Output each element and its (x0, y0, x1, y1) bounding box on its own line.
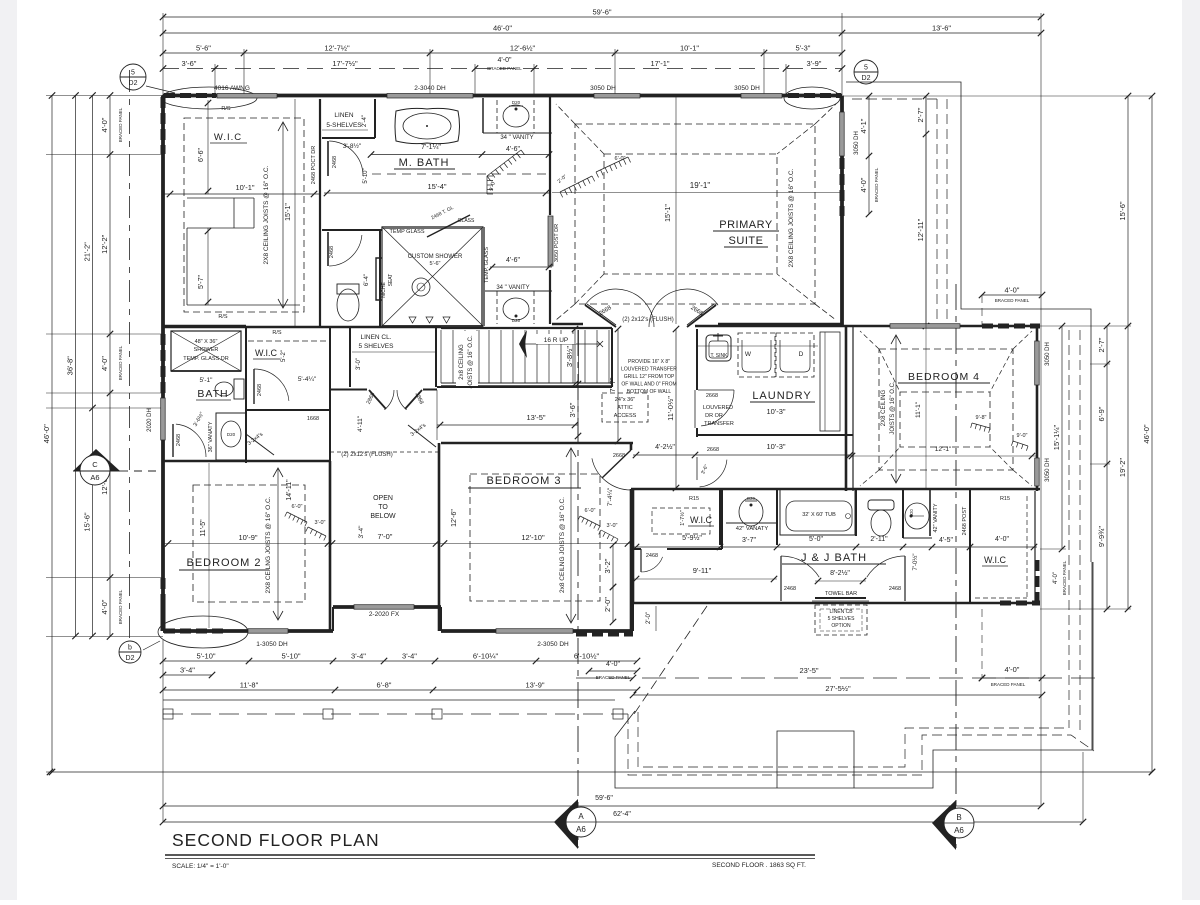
svg-text:2X8 CEILNG JOISTS @ 16" O.C.: 2X8 CEILNG JOISTS @ 16" O.C. (265, 496, 272, 593)
svg-text:19'-1": 19'-1" (690, 181, 711, 190)
svg-text:11'-8": 11'-8" (240, 681, 259, 690)
right dim 46'-0" (1151, 96, 1153, 772)
svg-text:R/S: R/S (221, 106, 231, 112)
svg-text:3'-4": 3'-4" (180, 666, 195, 675)
mbath door upper (327, 141, 329, 176)
top dim 46'-0" / 13'-6" (163, 32, 1041, 34)
left extension horizontals (46, 95, 163, 97)
bath2 toilet (234, 379, 244, 399)
wall bedroom2 right / open below left (329, 461, 332, 631)
svg-text:62'-4": 62'-4" (613, 811, 631, 818)
svg-text:2468: 2468 (176, 434, 182, 446)
braced panel right wall (840, 158, 845, 216)
right dim 2'-7" / 12'-11" (925, 96, 927, 326)
wall linen1 (374, 99, 376, 138)
hall double doors (369, 390, 386, 409)
wall suite left (549, 96, 551, 215)
svg-text:R15: R15 (1000, 496, 1010, 502)
svg-text:11'-0½": 11'-0½" (666, 396, 675, 421)
bedroom3 joist box (470, 474, 600, 601)
svg-text:10'-3": 10'-3" (766, 442, 785, 451)
deck edge line (163, 699, 615, 701)
svg-text:2'-7": 2'-7" (916, 107, 925, 122)
svg-text:36" VANATY: 36" VANATY (208, 421, 214, 452)
corridor dims (617, 329, 619, 441)
svg-text:2X8 CEILING JOISTS @ 16" O.C.: 2X8 CEILING JOISTS @ 16" O.C. (263, 165, 270, 264)
svg-text:D2: D2 (126, 655, 135, 662)
svg-text:3'-6": 3'-6" (568, 402, 577, 417)
braced panel bedroom4 top (982, 324, 1040, 329)
laundry wall opening (694, 390, 696, 428)
bath2 vanity (216, 413, 246, 460)
mbath toilet (337, 289, 359, 321)
svg-text:D20: D20 (909, 508, 914, 516)
custom shower (382, 227, 483, 326)
wic2 door (253, 369, 255, 404)
svg-text:5'-2": 5'-2" (281, 350, 287, 362)
svg-text:LINEN: LINEN (334, 112, 353, 119)
callout ellipse top-left corner (161, 87, 257, 109)
svg-text:SECOND FLOOR PLAN: SECOND FLOOR PLAN (172, 830, 380, 850)
patio hip diagonal (632, 606, 707, 717)
patio right dashed verticals (1068, 330, 1070, 728)
right dim 15'-6" / 19'-2" (1127, 96, 1129, 609)
bath2 niche wall (163, 325, 246, 328)
svg-text:SECOND FLOOR . 1863 SQ FT.: SECOND FLOOR . 1863 SQ FT. (712, 862, 806, 869)
mbath dim line 7'-1 / 4'-6 (371, 154, 549, 156)
left dim tier4 (109, 96, 111, 637)
room centerline (163, 543, 633, 545)
stair direction arrow 16 R UP (524, 343, 600, 345)
svg-text:46'-0": 46'-0" (493, 24, 512, 33)
section line B (955, 284, 957, 848)
windows bedroom4 right wall (1035, 341, 1040, 385)
window 2-2020 FX (354, 605, 414, 610)
bedroom3 hatches (580, 516, 600, 526)
svg-text:GRILL 12" FROM TOP: GRILL 12" FROM TOP (624, 374, 675, 380)
wall vanity1/tub (776, 489, 778, 545)
wall laundry left (696, 329, 698, 390)
right dim tier 1107 (1106, 326, 1108, 609)
svg-text:PRIMARY: PRIMARY (719, 219, 773, 231)
svg-text:10'-1": 10'-1" (235, 183, 254, 192)
svg-text:BRACED PANEL: BRACED PANEL (1062, 560, 1067, 595)
mbath door lower (327, 232, 329, 266)
svg-text:OPTION: OPTION (831, 623, 851, 629)
svg-text:4'-0": 4'-0" (100, 356, 109, 371)
right dim 15'-1 1/4" (1061, 326, 1063, 549)
svg-text:TEMP GLASS: TEMP GLASS (389, 229, 424, 235)
bath2 shower (171, 331, 241, 371)
washer (738, 333, 775, 377)
svg-text:5'-6": 5'-6" (430, 261, 441, 267)
suite double doors (585, 305, 616, 327)
braced panel bottom bedroom3 (576, 632, 633, 637)
svg-text:BRACED PANEL: BRACED PANEL (118, 345, 123, 380)
svg-text:2468 POST: 2468 POST (962, 506, 968, 535)
svg-text:12'-2": 12'-2" (100, 234, 109, 253)
porch roof dashed verticals top-right (936, 99, 938, 326)
vanity1 (726, 522, 777, 524)
window 3050 DH right wall (840, 112, 845, 156)
svg-text:59'-6": 59'-6" (595, 795, 613, 802)
svg-text:3'-4": 3'-4" (351, 652, 366, 661)
svg-text:4'-0": 4'-0" (498, 57, 512, 64)
vanity2 (905, 503, 929, 529)
exterior wall bottom bedroom3 (441, 629, 633, 633)
wic2 rod dashed (248, 340, 330, 342)
bedroom4 centerlines (925, 96, 927, 489)
svg-text:2x8 CEILNG JOISTS @ 16" O.C.: 2x8 CEILNG JOISTS @ 16" O.C. (559, 497, 566, 593)
svg-text:BRACED PANEL: BRACED PANEL (487, 66, 522, 71)
svg-text:TEMP. GLASS: TEMP. GLASS (484, 247, 490, 283)
svg-text:3'-7": 3'-7" (742, 537, 756, 544)
deck dashed line with posts (163, 713, 628, 715)
svg-text:D: D (799, 351, 804, 358)
svg-text:A: A (578, 812, 584, 821)
svg-text:3050 DH: 3050 DH (734, 85, 760, 92)
suite inner tray box (604, 154, 777, 274)
svg-text:J & J BATH: J & J BATH (801, 552, 867, 564)
svg-text:BRACED PANEL: BRACED PANEL (991, 682, 1026, 687)
svg-text:6'-10¼": 6'-10¼" (473, 652, 499, 661)
svg-text:JOISTS @ 16" O.C.: JOISTS @ 16" O.C. (468, 335, 474, 389)
laundry counter right (820, 332, 840, 431)
svg-text:3'-2": 3'-2" (603, 558, 612, 573)
svg-text:5'-1": 5'-1" (200, 377, 214, 384)
wall WIC1 right (319, 99, 321, 326)
svg-text:4'-1": 4'-1" (859, 118, 868, 133)
svg-text:2668: 2668 (707, 447, 719, 453)
jj doors (780, 566, 782, 601)
mbath dim 15'-4" (324, 192, 549, 194)
svg-text:ATTIC: ATTIC (617, 405, 633, 411)
wall wic3 right (719, 489, 721, 545)
svg-text:48" X 36": 48" X 36" (195, 339, 218, 345)
svg-text:TO: TO (378, 504, 388, 511)
exterior wall right upper (840, 96, 844, 327)
svg-text:15'-6": 15'-6" (83, 512, 92, 531)
open below bay wall (333, 605, 441, 609)
svg-text:LOUVERED: LOUVERED (703, 405, 733, 411)
svg-text:5'-10": 5'-10" (281, 652, 300, 661)
svg-text:5: 5 (864, 65, 868, 72)
bedroom4 hatches (972, 423, 990, 428)
wall wic4 left (969, 489, 971, 603)
svg-text:16 R UP: 16 R UP (544, 337, 569, 344)
bedroom2 joist box (193, 485, 305, 602)
svg-text:3'-8½": 3'-8½" (565, 346, 574, 368)
svg-text:2'-0": 2'-0" (603, 597, 612, 612)
svg-text:2468: 2468 (784, 586, 796, 592)
svg-text:BATH: BATH (197, 388, 228, 400)
svg-text:W.I.C: W.I.C (690, 515, 712, 525)
svg-text:8'-2½": 8'-2½" (830, 569, 850, 577)
svg-text:2-2020 FX: 2-2020 FX (369, 611, 400, 618)
bottom dim tier2 (163, 689, 637, 691)
svg-text:2x8 CEILING: 2x8 CEILING (459, 344, 465, 380)
wall tub/toilet (855, 489, 857, 536)
right dim 4'-1" / braced 4'-0" (868, 96, 870, 214)
wall hall/jj step (632, 603, 634, 631)
wall shower top (382, 226, 483, 228)
svg-text:BRACED PANEL: BRACED PANEL (118, 107, 123, 142)
laundry sink (706, 335, 731, 361)
wall bedroom4 right (1036, 326, 1039, 491)
callout ellipse bottom-left corner (158, 616, 248, 648)
attic access (602, 393, 648, 422)
svg-text:R15: R15 (689, 496, 699, 502)
window 3050 DH b (741, 94, 782, 99)
svg-text:14'-11": 14'-11" (286, 479, 293, 501)
wall m.bath toilet room (322, 229, 382, 231)
bottom braced panel dim (589, 670, 637, 672)
svg-text:5'-10": 5'-10" (363, 168, 369, 183)
svg-text:ACCESS: ACCESS (614, 413, 637, 419)
bottom extension verticals (162, 640, 164, 822)
svg-text:JOISTS @ 16" O.C.: JOISTS @ 16" O.C. (890, 381, 896, 435)
bath2 door (172, 424, 174, 457)
svg-text:D20: D20 (512, 318, 521, 323)
svg-text:2468: 2468 (257, 384, 263, 396)
wall mid horizontal y=327 (163, 326, 441, 329)
detail marker 5/D2 top-left (120, 64, 146, 90)
exterior wall left (161, 96, 165, 632)
bottom dim 23'-5" dashed (576, 677, 1100, 679)
bedroom3 door (602, 450, 631, 478)
svg-text:9'-11": 9'-11" (693, 566, 712, 575)
braced panel top-right (788, 93, 841, 98)
svg-text:(2) 2x12's (FLUSH): (2) 2x12's (FLUSH) (341, 452, 393, 458)
stair stringer line (441, 382, 612, 384)
svg-text:D20: D20 (512, 100, 521, 105)
svg-text:3'-6": 3'-6" (182, 59, 197, 68)
svg-text:42" VANITY: 42" VANITY (933, 503, 939, 532)
svg-text:3050 DH: 3050 DH (590, 85, 616, 92)
svg-text:LOUVERED TRANSFER: LOUVERED TRANSFER (621, 367, 677, 373)
svg-text:23'-5": 23'-5" (799, 666, 818, 675)
braced panels left wall (161, 97, 166, 154)
svg-text:W: W (745, 351, 752, 358)
svg-text:9'-8": 9'-8" (976, 415, 987, 421)
svg-text:BRACED PANEL: BRACED PANEL (874, 167, 879, 202)
wall hall left x330 (329, 327, 331, 461)
bedroom4 tray corner diagonals (879, 349, 900, 392)
svg-text:5'-6": 5'-6" (196, 44, 211, 53)
wall stair right (611, 328, 613, 387)
svg-text:T. SINK: T. SINK (711, 353, 729, 359)
svg-text:5'-4¼": 5'-4¼" (298, 376, 317, 383)
svg-text:A6: A6 (576, 825, 586, 834)
svg-text:W.I.C: W.I.C (984, 555, 1006, 565)
mbath niche jog (376, 258, 382, 300)
patio step notch (777, 731, 854, 788)
svg-text:TRANSFER: TRANSFER (704, 421, 734, 427)
callout ellipse top-right (784, 87, 840, 109)
svg-text:3'-0": 3'-0" (607, 523, 618, 529)
svg-text:12'-10": 12'-10" (521, 533, 545, 542)
svg-text:3'-0": 3'-0" (315, 520, 326, 526)
svg-text:4'-0": 4'-0" (1053, 572, 1059, 584)
right braced panel dim lower (982, 677, 1042, 679)
linen2 box (435, 328, 437, 387)
patio outline solid (615, 562, 1092, 788)
svg-text:R/S: R/S (218, 314, 228, 320)
svg-text:BEDROOM 3: BEDROOM 3 (486, 475, 561, 487)
svg-text:46'-0": 46'-0" (42, 424, 51, 443)
svg-text:4'-0": 4'-0" (1005, 665, 1020, 674)
wic3 bottom wall (633, 548, 641, 550)
svg-text:1668: 1668 (307, 416, 319, 422)
dryer (776, 333, 814, 377)
braced corner bottom-left (164, 629, 225, 634)
mbath tub (395, 108, 460, 143)
right extension lines (1040, 325, 1131, 327)
svg-text:46'-0": 46'-0" (1142, 424, 1151, 443)
svg-text:6'-0": 6'-0" (292, 504, 303, 510)
svg-text:BOTTOM OF WALL: BOTTOM OF WALL (627, 389, 672, 395)
bedroom3 joist arrow (570, 448, 572, 623)
svg-text:1'-7½": 1'-7½" (679, 510, 686, 526)
wall bedroom3 top (441, 442, 633, 445)
svg-text:13'-6": 13'-6" (932, 24, 951, 33)
svg-text:59'-6": 59'-6" (592, 8, 611, 17)
bottom dim tier1 (163, 660, 637, 662)
left dim 21'-2" / 15'-6" (92, 96, 94, 637)
laundry door left (698, 389, 734, 391)
svg-text:5'-10": 5'-10" (196, 652, 215, 661)
wic3 rod dashed (652, 508, 710, 534)
svg-text:3'-0": 3'-0" (356, 358, 362, 370)
svg-text:B: B (956, 813, 961, 822)
svg-text:3'-9": 3'-9" (807, 59, 822, 68)
wic4 rod dashed (1026, 496, 1028, 598)
svg-text:D20: D20 (747, 496, 755, 501)
svg-text:W.I.C: W.I.C (255, 348, 277, 358)
patio right solid vertical (1092, 562, 1094, 750)
svg-text:34 " VANITY: 34 " VANITY (496, 285, 529, 291)
porch roof outline top-right (846, 82, 1091, 562)
suite entry post opening (548, 216, 553, 266)
window 2-3040 DH (387, 94, 473, 99)
svg-text:12'-1": 12'-1" (935, 446, 952, 453)
mbath ceiling dash line (372, 173, 550, 175)
bedroom2 joist arrow (277, 468, 279, 620)
bottom dim 62'-4" (163, 821, 1083, 823)
svg-text:7'-7": 7'-7" (608, 377, 617, 392)
svg-text:2X8 CEILING: 2X8 CEILING (881, 389, 887, 426)
jj toilet (868, 500, 894, 510)
wall stairwell bottom (437, 386, 612, 388)
stair joist label (456, 331, 478, 386)
svg-text:2'-0": 2'-0" (646, 612, 652, 624)
dim 13'-5" (437, 424, 578, 426)
window 1-3050 DH bedroom2 (248, 629, 288, 634)
svg-text:BELOW: BELOW (370, 513, 396, 520)
svg-text:2468: 2468 (332, 156, 338, 168)
bottom dim 27'-5 1/2" (633, 694, 1042, 696)
suite tray corner diagonals (575, 124, 604, 154)
svg-text:4'-0": 4'-0" (100, 599, 109, 614)
window 2020 DH left wall (161, 398, 166, 440)
svg-text:CUSTOM SHOWER: CUSTOM SHOWER (408, 254, 463, 260)
svg-text:2'-4": 2'-4" (362, 115, 368, 127)
svg-text:SCALE: 1/4" = 1'-0": SCALE: 1/4" = 1'-0" (172, 863, 229, 870)
mbath vanity upper (482, 98, 484, 133)
svg-text:2468 POCT DR: 2468 POCT DR (311, 146, 317, 184)
mbath tile hatch NE (486, 176, 488, 194)
svg-text:LAUNDRY: LAUNDRY (752, 390, 811, 402)
wall wic2 bottom (246, 409, 330, 411)
mbath vanity lower (482, 291, 484, 326)
wall bedroom3 right (630, 443, 633, 450)
wall laundry top (695, 325, 853, 328)
hall dim line (633, 454, 853, 456)
bay stub walls (332, 607, 334, 631)
svg-text:SUITE: SUITE (729, 235, 764, 247)
patio dashed outline inner (638, 712, 1066, 767)
jj dim chain (633, 546, 1037, 548)
suite joist dashed box (575, 124, 815, 304)
svg-text:3'-4": 3'-4" (358, 525, 365, 539)
svg-text:17'-1": 17'-1" (650, 59, 669, 68)
svg-text:10'-1": 10'-1" (680, 44, 699, 53)
svg-text:R/S: R/S (272, 330, 282, 336)
wall bedroom4 top (853, 325, 1040, 328)
svg-text:6'-8": 6'-8" (377, 681, 392, 690)
bottom dim 59'-6" (163, 805, 1041, 807)
svg-text:4'-0": 4'-0" (606, 661, 620, 668)
suite tile hatches NW (560, 176, 592, 192)
svg-text:2468: 2468 (889, 586, 901, 592)
wall bedroom2 top (163, 460, 330, 463)
svg-text:W.I.C: W.I.C (214, 132, 242, 143)
right extension line top (842, 95, 1152, 97)
wall J&J left (632, 489, 635, 603)
svg-text:15'-1¼": 15'-1¼" (1052, 424, 1061, 450)
svg-text:13'-5": 13'-5" (526, 413, 545, 422)
svg-text:5'-7": 5'-7" (198, 275, 205, 289)
svg-text:3050 DH: 3050 DH (1045, 342, 1051, 366)
svg-text:13'-9": 13'-9" (525, 681, 544, 690)
svg-text:3050 DH: 3050 DH (854, 131, 860, 155)
svg-text:M. BATH: M. BATH (399, 157, 450, 169)
svg-text:TEMP. GLASS DR: TEMP. GLASS DR (183, 356, 228, 362)
hall doorway walls (330, 389, 367, 391)
svg-text:15'-6": 15'-6" (1118, 201, 1127, 220)
svg-text:17'-7½": 17'-7½" (332, 59, 358, 68)
wall toilet/vanity2 (902, 489, 904, 538)
svg-text:15'-1": 15'-1" (285, 203, 292, 221)
svg-text:4'-0": 4'-0" (1005, 286, 1020, 295)
section line A (577, 330, 579, 848)
bottom extent line (50, 771, 1152, 773)
mbath dim 4'-6" lower (490, 266, 552, 268)
svg-text:5 SHELVES: 5 SHELVES (828, 616, 856, 622)
wic1 joist arrow (282, 122, 284, 308)
svg-text:2'-11": 2'-11" (870, 536, 888, 543)
stair treads (440, 330, 442, 383)
svg-text:2668: 2668 (706, 393, 718, 399)
svg-text:5 SHELVES: 5 SHELVES (359, 343, 395, 350)
svg-text:D2: D2 (129, 80, 138, 87)
svg-text:5: 5 (131, 70, 135, 77)
laundry counter line (698, 345, 818, 347)
jj tub (780, 489, 855, 535)
svg-text:NICHE: NICHE (381, 282, 387, 298)
svg-text:LINEN CL.: LINEN CL. (360, 334, 391, 341)
svg-text:19'-2": 19'-2" (1118, 458, 1127, 477)
